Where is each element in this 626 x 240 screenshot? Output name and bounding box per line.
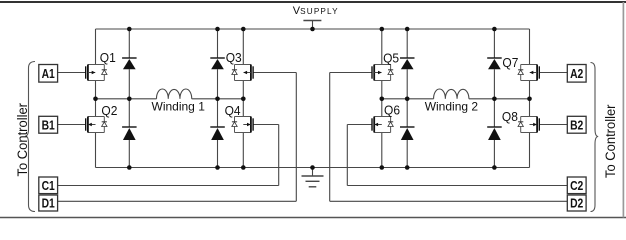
svg-text:Q6: Q6 (384, 103, 400, 118)
svg-text:B2: B2 (570, 117, 583, 132)
svg-text:Q7: Q7 (502, 55, 518, 70)
svg-text:C1: C1 (42, 178, 55, 193)
svg-text:To Controller: To Controller (603, 104, 618, 178)
svg-text:VSUPPLY: VSUPPLY (293, 5, 339, 17)
svg-text:A2: A2 (570, 66, 583, 81)
svg-text:Q1: Q1 (100, 50, 116, 65)
svg-text:Q2: Q2 (101, 103, 117, 118)
svg-text:C2: C2 (570, 178, 583, 193)
svg-text:Winding 1: Winding 1 (152, 100, 206, 114)
svg-text:A1: A1 (42, 66, 55, 81)
svg-text:Q5: Q5 (383, 51, 399, 66)
svg-text:Q3: Q3 (226, 50, 242, 65)
svg-text:B1: B1 (42, 117, 55, 132)
svg-text:Q4: Q4 (225, 103, 241, 118)
svg-text:D2: D2 (570, 196, 583, 211)
svg-text:Q8: Q8 (502, 109, 518, 124)
svg-text:To Controller: To Controller (15, 103, 30, 177)
svg-text:Winding 2: Winding 2 (425, 100, 479, 114)
svg-text:D1: D1 (42, 196, 55, 211)
